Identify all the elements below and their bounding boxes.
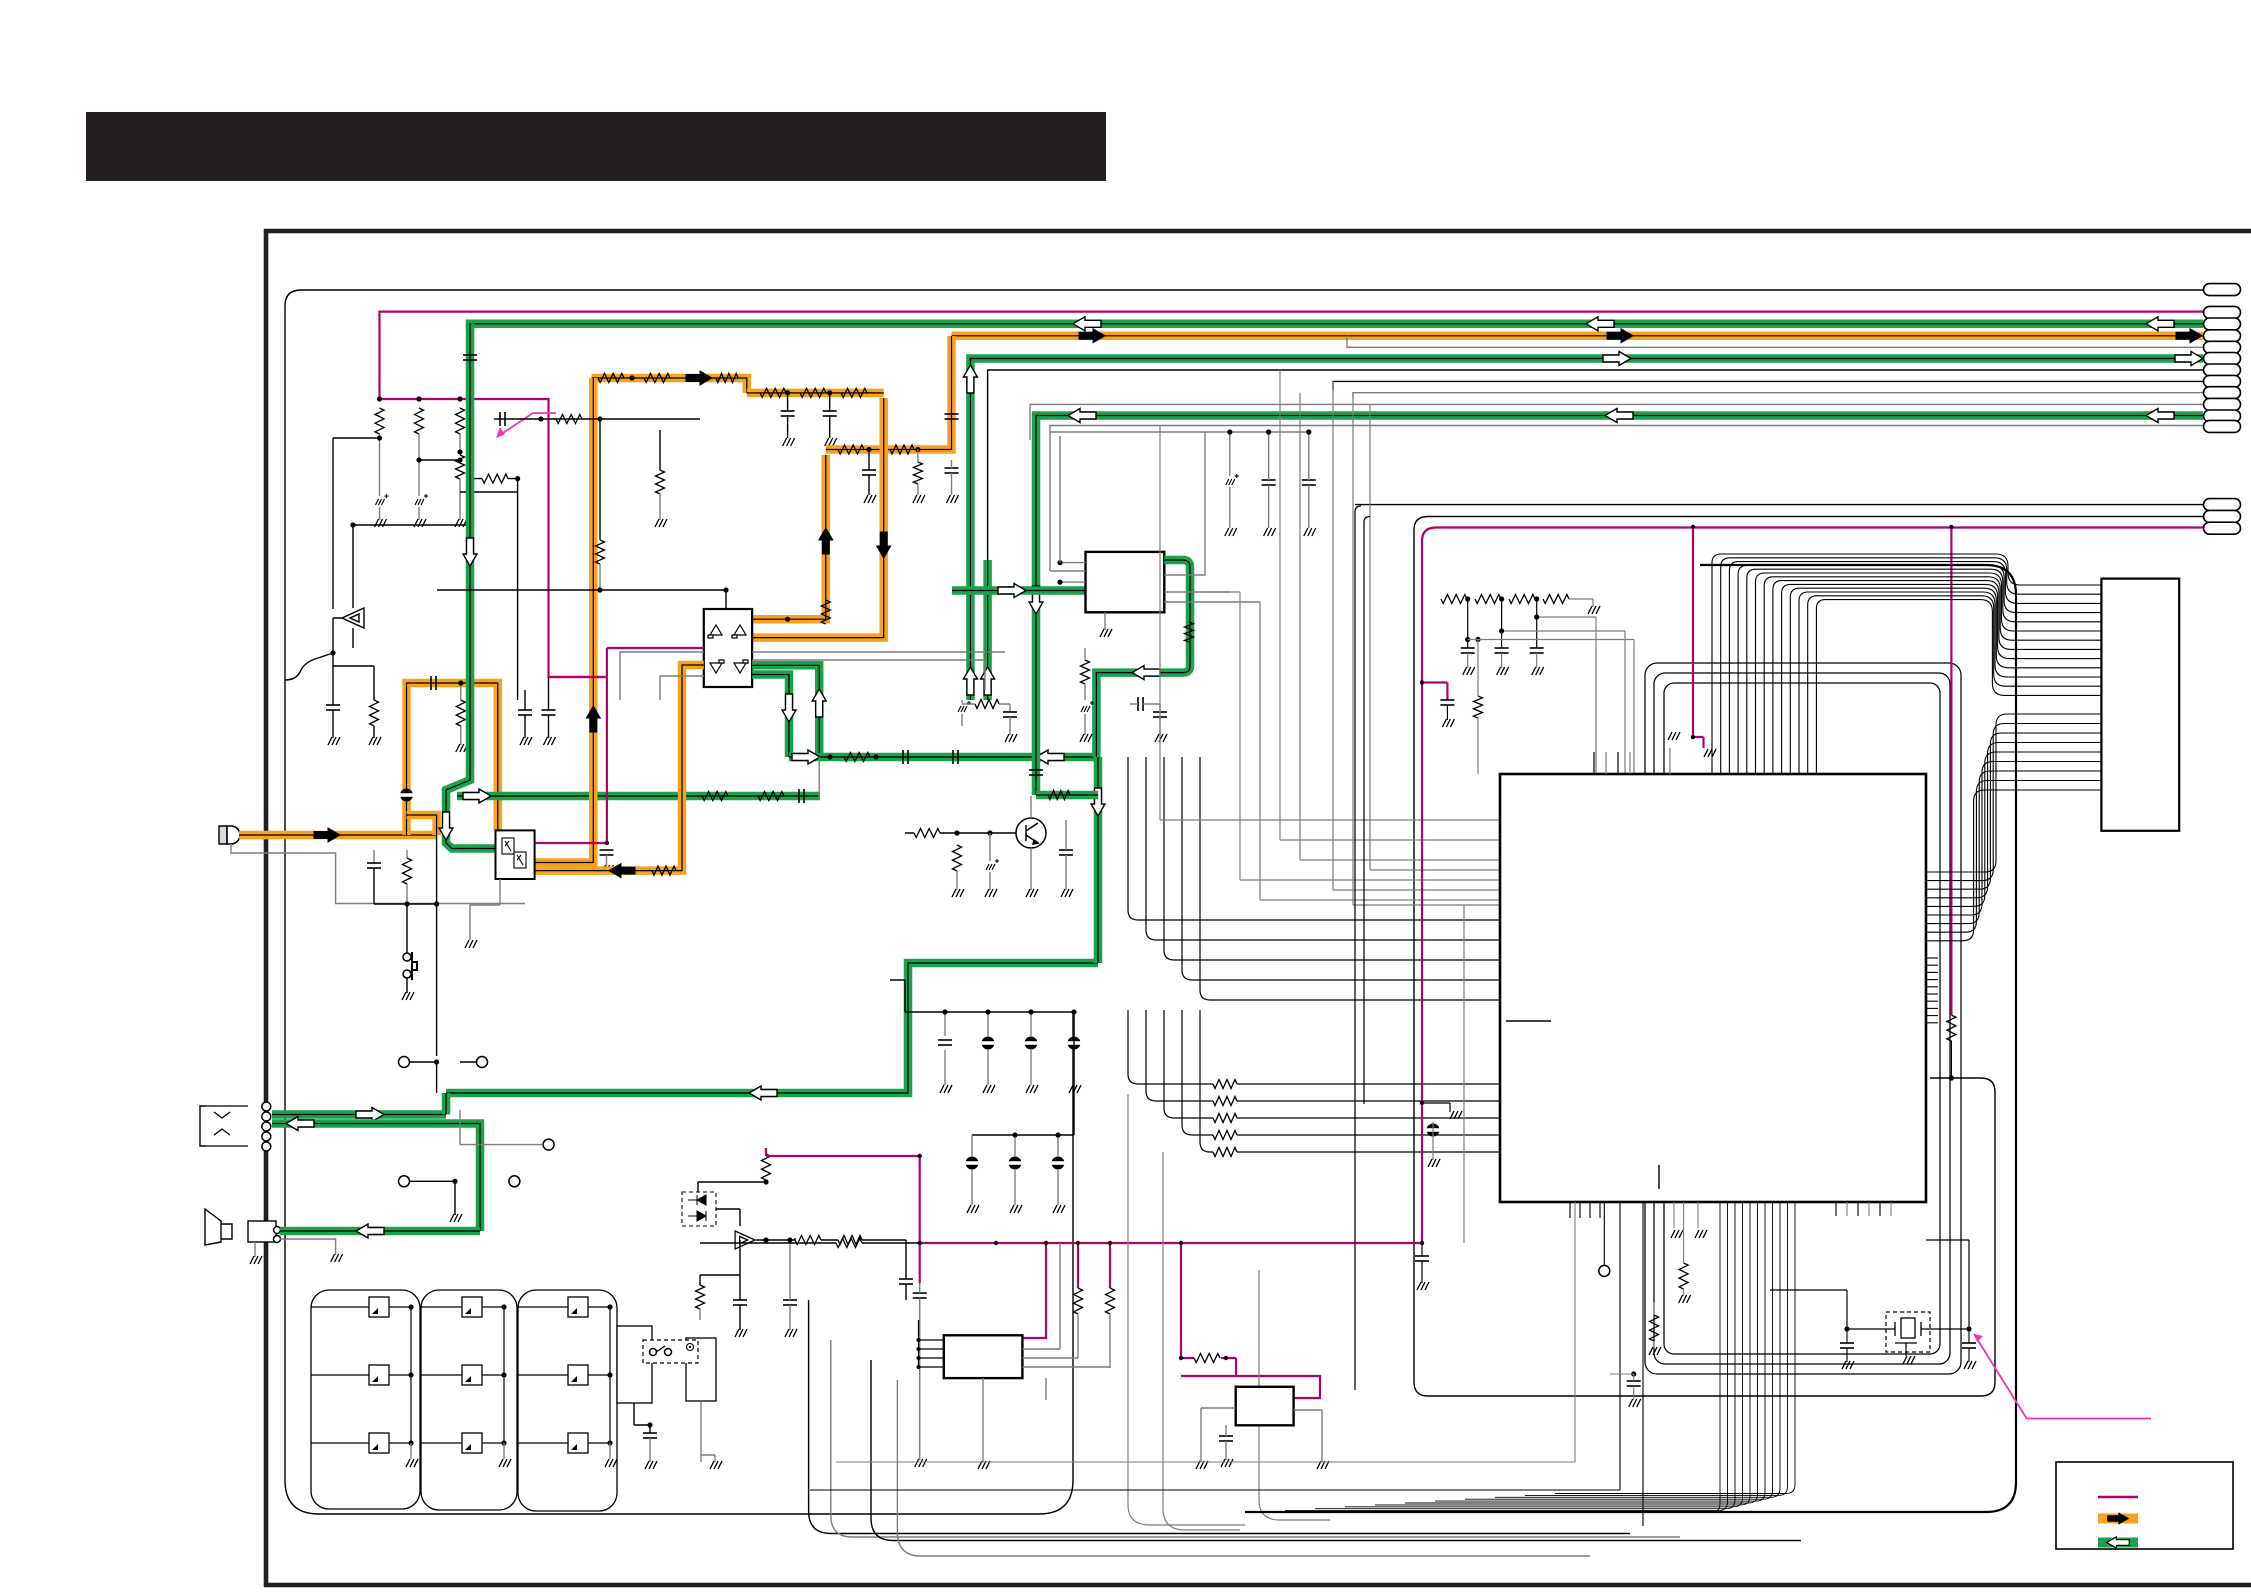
arrow green down 1: [463, 538, 477, 566]
wire loopB drop2: [1364, 517, 1370, 1105]
diode pair dashed: [682, 1192, 716, 1226]
capacitor C IF 2: [1302, 480, 1316, 485]
ground tx row2a: [781, 438, 796, 446]
wire xtal feed: [1770, 1240, 1969, 1329]
wire loop E: [1664, 683, 1940, 1354]
wire center link: [494, 418, 700, 420]
wire crystal: [1847, 1328, 1969, 1330]
ground af5: [1153, 734, 1168, 742]
wire orange vertical mid: [535, 378, 593, 863]
capacitor C low2: [783, 1300, 797, 1305]
wire orange out1: [752, 455, 826, 619]
connector pin 4: [2204, 330, 2241, 342]
wire ic left bus 2: [1146, 757, 1500, 940]
ground magenta end: [1415, 1282, 1430, 1290]
connector pin 10: [2204, 398, 2241, 410]
wire bus thin 2: [988, 370, 2203, 560]
wire mic amp gnd: [470, 879, 500, 940]
resistor R center2: [596, 540, 605, 564]
capacitor bank B1: [966, 1157, 979, 1170]
wire magenta mid to pin15: [1422, 528, 2203, 600]
wire cpu bottom verticals: [1255, 1202, 1720, 1513]
ground cpu r1: [1677, 1295, 1692, 1303]
resistor R mic bias: [456, 700, 465, 726]
jack contact 4: [262, 1132, 271, 1141]
arrow orange TX right 1: [1079, 329, 1105, 343]
ground mic amp: [463, 940, 478, 948]
capacitor bank A4: [1068, 1037, 1081, 1050]
wire low cluster: [700, 1240, 740, 1285]
resistor R tx6: [841, 388, 867, 397]
wire bottom wrap: [285, 1012, 1073, 1514]
connector pin 11: [2204, 410, 2241, 422]
arrow green branch right: [463, 789, 491, 803]
ground af 2: [367, 737, 382, 745]
wire magenta ic2 net: [1181, 1243, 1320, 1398]
wire crossbar: [437, 590, 726, 640]
resistor R cpu2: [1650, 1315, 1659, 1341]
wire cpu right stubs: [1926, 957, 1938, 959]
wire speaker gnd: [280, 1239, 336, 1255]
arrow orange row1: [686, 371, 712, 385]
resistor R af2: [975, 700, 999, 709]
key switch 3-1: [568, 1297, 588, 1317]
resistor R af row: [844, 753, 870, 762]
wire green branch east: [457, 792, 820, 801]
capacitor C tx row3a: [862, 470, 876, 475]
wire q1 collector: [1030, 796, 1032, 818]
resistor R supply 4: [456, 455, 465, 479]
resistor R low: [696, 1285, 705, 1309]
wire IF right pins gray: [1164, 432, 1260, 602]
capacitor C det mag: [600, 850, 614, 855]
keypad group 2 outline: [421, 1290, 517, 1510]
wire magenta det: [535, 648, 704, 843]
wire magenta AF level: [766, 1155, 920, 1157]
capacitor tantalum af3: [1081, 701, 1094, 712]
arrow green RX left 2: [1073, 317, 1101, 331]
capacitor tantalum 1: [376, 494, 389, 505]
wire long vertical fan2: [1259, 1270, 1330, 1520]
capacitor tantalum IF: [1226, 474, 1239, 485]
ground ic1: [976, 1461, 991, 1469]
connector pin 14: [2204, 511, 2241, 523]
capacitor C green end: [799, 789, 804, 803]
arrow green wrap left: [1132, 666, 1160, 680]
arrow green earphone right: [356, 1108, 384, 1122]
ground mag1: [913, 1459, 928, 1467]
wire orange ladder row3: [826, 336, 952, 450]
wire bus thin 6: [1050, 426, 2203, 441]
capacitor tantalum af: [958, 701, 971, 712]
legend magenta sample: [2098, 1496, 2138, 1499]
capacitor C buffer: [899, 1279, 913, 1284]
wire ic left bus 5: [1200, 757, 1500, 1000]
ground IF 4: [1098, 629, 1113, 637]
wire bottom line c: [831, 1340, 1680, 1537]
wire green det out A: [752, 665, 819, 757]
connector pin 8: [2204, 375, 2241, 387]
resistor R bank: [836, 1239, 862, 1248]
ground q1 2: [983, 889, 998, 897]
ground tx row2b: [823, 438, 838, 446]
capacitor bank B3: [1052, 1157, 1065, 1170]
ground keypad 3: [603, 1459, 618, 1467]
capacitor C q1: [1059, 850, 1073, 855]
wire magenta drop 3: [1950, 527, 1952, 1015]
resistor R tx9: [913, 462, 922, 484]
arrow green3 left 1: [1605, 409, 1633, 423]
ground magenta jog: [1440, 719, 1455, 727]
wire IF bottom gnd: [1104, 612, 1106, 630]
resistor R disc: [652, 866, 676, 875]
capacitor C switch: [643, 1433, 657, 1438]
arrow green det down: [782, 694, 796, 722]
wire magenta drop 1: [1421, 599, 1423, 1243]
wire cpu top bundle: [1712, 554, 2101, 774]
arrow green det up: [812, 689, 826, 717]
wire long vertical fan1: [1163, 1152, 1240, 1530]
arrow green RX left 3: [1586, 317, 1614, 331]
wire ic2 right gnd: [1294, 1410, 1322, 1462]
wire ic left bus 3: [1164, 757, 1500, 960]
wire cpu bottom long1: [810, 1202, 1620, 1490]
connector pin 13: [2204, 499, 2241, 511]
resistor R tx4: [760, 388, 786, 397]
resistor R buffer: [795, 1236, 821, 1245]
wire green det out B: [752, 675, 789, 758]
amp buffer small: [735, 1231, 755, 1249]
wire green AF row: [789, 753, 1096, 762]
ground chain c: [1530, 667, 1545, 675]
IC quad detector: [704, 609, 752, 687]
wire green jack link: [442, 1093, 451, 1115]
wire orange disc in: [535, 665, 704, 871]
wire magenta r2: [1109, 1243, 1111, 1288]
arrow green AF left: [1036, 750, 1064, 764]
ground speaker 2: [248, 1256, 263, 1264]
arrow green speaker left: [356, 1224, 384, 1238]
connector pin 15: [2204, 522, 2241, 534]
ground af 1: [326, 737, 341, 745]
ground low1: [733, 1329, 748, 1337]
ground tx row3b: [911, 495, 926, 503]
resistor R center3: [656, 470, 665, 494]
resistor R tx2: [644, 374, 670, 383]
connector pin 3: [2204, 318, 2241, 330]
orange electrolytic branch: [407, 683, 498, 835]
resistor R tx7: [838, 445, 864, 454]
arrow orange disc left: [609, 864, 635, 878]
speaker SP1: [205, 1209, 221, 1245]
wire ic1 gnd: [982, 1378, 984, 1462]
ground cpu top: [1669, 748, 1671, 774]
capacitor C af4: [1138, 697, 1143, 711]
resistor R fan 5: [1213, 1148, 1237, 1157]
wire cap bank bus 2: [972, 1012, 1074, 1135]
arrow green earphone left: [286, 1117, 314, 1131]
capacitor bank A3: [1025, 1037, 1038, 1050]
capacitor bank B2: [1009, 1157, 1022, 1170]
ground low2: [783, 1329, 798, 1337]
resistor R magenta3: [1947, 1015, 1956, 1041]
outer schematic border: [264, 231, 2251, 1587]
wire tap: [460, 491, 518, 493]
wire gray det outs: [620, 652, 704, 700]
capacitor C af row2: [953, 750, 958, 764]
ground cpu r2: [1647, 1347, 1662, 1355]
resistor R row795: [1048, 791, 1070, 800]
ground q1 4: [1059, 889, 1074, 897]
wire bank feed: [890, 980, 905, 1012]
connector pin 7: [2204, 364, 2241, 376]
ground chain: [1586, 606, 1601, 614]
ground chain c: [1495, 667, 1510, 675]
resistor R green1: [702, 792, 728, 801]
ground IF 2: [1262, 528, 1277, 536]
ground af2: [1003, 734, 1018, 742]
wire center drops: [600, 419, 660, 540]
ground IF 1: [1223, 528, 1238, 536]
wire magenta row: [380, 399, 607, 677]
capacitor C ic2: [1219, 1436, 1233, 1441]
wire gray vert x1464: [1463, 905, 1465, 1243]
wire magenta node gnd: [1422, 1103, 1450, 1112]
capacitor C tx row3c: [945, 468, 959, 473]
wire switch mid: [634, 1403, 650, 1433]
ground switch 2: [708, 1461, 723, 1469]
arrow orange down mid: [877, 532, 891, 558]
resistor R af: [370, 700, 379, 726]
wire cpu bottom pins: [1569, 1202, 1571, 1218]
legend orange sample: [2098, 1514, 2138, 1524]
capacitor C xtal2: [1962, 1343, 1976, 1348]
ground switch 1: [643, 1461, 658, 1469]
wire magenta jog: [1422, 683, 1447, 701]
phone jack J2: [200, 1106, 206, 1146]
key switch 3-2: [568, 1365, 588, 1385]
terminal cpu: [1599, 1265, 1610, 1276]
wire green speaker: [280, 1227, 480, 1236]
ground magenta mid: [1448, 1111, 1463, 1119]
wire af filter row: [818, 757, 820, 800]
capacitor C orange top: [431, 676, 436, 690]
mic connector MJ1: [219, 826, 227, 844]
wire green earphone out: [272, 1110, 446, 1119]
wire cpu top small pins: [1593, 752, 1595, 774]
terminal 3: [543, 1139, 554, 1150]
legend box: [2056, 1462, 2233, 1549]
wire green IF wrap: [1096, 560, 1190, 757]
wire bottom line b: [809, 1300, 1630, 1534]
capacitor C xtal1: [1840, 1343, 1854, 1348]
wire ic1 right pins: [1022, 1243, 1060, 1349]
IC IF amp U2: [1086, 552, 1165, 612]
switch PTT: [403, 953, 411, 961]
wire det right gray: [752, 652, 1005, 690]
resistor R buffer2: [838, 1236, 862, 1245]
resistor R mag1: [1074, 1288, 1083, 1314]
wire IF left pins: [1060, 563, 1086, 583]
wire green RX vertical: [446, 324, 496, 849]
ground ic2 c: [1315, 1461, 1330, 1469]
wire node to green: [419, 459, 460, 461]
terminal pair 2: [399, 1176, 410, 1187]
arrow green2 right 1: [1603, 352, 1631, 366]
wire inner loop top: [285, 290, 2203, 1480]
terminal pair 1: [399, 1057, 410, 1068]
resistor R supply 3: [456, 408, 465, 434]
electrolytic C magenta: [1427, 1124, 1440, 1137]
wire bus magenta B+: [380, 312, 2204, 400]
wire mic orange: [239, 831, 437, 840]
wire orange ladder row2: [747, 389, 884, 398]
wire bottom line d: [871, 1360, 1801, 1541]
ground xtal2: [1962, 1361, 1977, 1369]
wire bus thin 5: [1030, 404, 2203, 440]
key switch 1-2: [369, 1365, 389, 1385]
arrow green det down2: [1091, 788, 1105, 816]
connector pin 9: [2204, 387, 2241, 399]
wire bus thin 3: [1333, 381, 2203, 390]
electrolytic C mic: [400, 789, 413, 802]
key switch 2-1: [462, 1297, 482, 1317]
key switch 1-3: [369, 1433, 389, 1453]
title bar (redacted text): [86, 112, 1106, 181]
ground terminal: [448, 1214, 463, 1222]
key switch 2-2: [462, 1365, 482, 1385]
capacitor bank A1: [938, 1040, 952, 1045]
IC mic amp: [496, 830, 535, 879]
ground det mag: [600, 865, 615, 873]
key switch 3-3: [568, 1433, 588, 1453]
wire long vertical fan0: [1128, 1094, 1245, 1525]
ground tx row3c: [945, 495, 960, 503]
switch rotary dashed: [643, 1340, 698, 1363]
resistor R chain v: [1474, 696, 1483, 718]
resistor R q1 1: [953, 845, 962, 871]
wire cap bank bus: [905, 1011, 1074, 1013]
wire diode link: [698, 1182, 766, 1226]
ground q1 1: [950, 889, 965, 897]
resistor R tx1: [598, 374, 624, 383]
capacitor C chain: [1530, 648, 1544, 653]
ground supply 2: [412, 519, 427, 527]
jack contact 3: [262, 1122, 271, 1131]
ground supply 1: [373, 519, 388, 527]
resistor R ptt: [403, 858, 412, 884]
pink annotation leader: [497, 413, 556, 437]
resistor R center: [556, 415, 582, 424]
ground xtal3: [1901, 1356, 1916, 1364]
wire magenta drop ic1: [1022, 1243, 1046, 1338]
wire magenta drop 2: [1693, 527, 1704, 748]
resistor R tx3: [716, 374, 738, 383]
arrow green AF right: [792, 750, 820, 764]
legend green sample: [2098, 1538, 2138, 1548]
arrow orange TX right 3: [2176, 329, 2202, 343]
connector pin 5: [2204, 341, 2241, 353]
wire magenta bottom bus: [920, 1242, 1422, 1244]
wire cpu right bundle: [1926, 714, 2101, 872]
wire loopA drop: [1355, 506, 1361, 1390]
resistor R mag2: [1106, 1288, 1115, 1314]
transistor Q1: [1016, 818, 1046, 848]
capacitor C det pair 1: [518, 710, 532, 715]
resistor R green2: [758, 792, 784, 801]
wire orange out2: [752, 398, 884, 638]
wire green det down: [1094, 757, 1103, 963]
wire ic left bus 1: [1128, 757, 1500, 920]
resistor R cpu1: [1679, 1263, 1688, 1289]
op-amp AF buffer: [342, 608, 364, 628]
connector pin 12: [2204, 420, 2241, 432]
capacitor C green inline: [463, 355, 477, 360]
wire gray mid links: [1205, 592, 1500, 880]
wire magenta main vertical: [919, 1156, 921, 1283]
IC CPU U10: [1500, 774, 1926, 1202]
wire ic1 left pins: [919, 1339, 944, 1341]
capacitor tantalum 2: [415, 494, 428, 505]
arrow green2 up b: [963, 667, 977, 695]
ground supply 3: [453, 519, 468, 527]
capacitor C magenta jog: [1440, 700, 1454, 705]
wire gray ic left extra: [1280, 370, 1500, 840]
capacitor C tx row2a: [781, 411, 795, 416]
ground keypad 1: [404, 1459, 419, 1467]
wire ic left bus 4: [1182, 757, 1500, 980]
arrow green RX left 4: [2146, 317, 2174, 331]
wire mic gnd branch: [231, 844, 525, 904]
jack contact 5: [262, 1142, 271, 1151]
wire bus orange TX: [952, 332, 2204, 341]
wire bank resistor row: [700, 1242, 836, 1244]
wire bottom line e: [897, 1380, 1590, 1556]
resistor R fan 1: [1213, 1080, 1237, 1089]
ground magenta mid2: [1426, 1159, 1441, 1167]
connector pin 6: [2204, 353, 2241, 365]
capacitor C center: [500, 412, 505, 426]
wire magenta r1: [1077, 1243, 1079, 1288]
arrow orange up mid: [819, 528, 833, 554]
resistor R det out: [821, 600, 830, 624]
capacitor tantalum q1: [986, 859, 999, 870]
resistor chain B+ row: [1441, 595, 1467, 604]
ground det 1: [518, 737, 533, 745]
capacitor C af2: [1003, 712, 1017, 717]
ground ic2 b: [1219, 1459, 1234, 1467]
capacitor bank A2: [982, 1037, 995, 1050]
switch block right: [686, 1338, 716, 1401]
resistor R fb horizontal: [482, 474, 508, 483]
arrow green IF right: [998, 584, 1026, 598]
switch block left: [617, 1326, 652, 1403]
capacitor C tx vert inline: [945, 414, 959, 419]
wire bus green 2: [970, 359, 2203, 701]
keypad group 1 outline: [311, 1290, 420, 1509]
arrow green2 right 2: [2175, 352, 2203, 366]
arrow green2b up: [981, 667, 995, 695]
wire green earphone return: [272, 1124, 480, 1232]
arrow mic orange right: [314, 828, 340, 842]
arrow orange up 1: [586, 706, 600, 732]
ground IF 3: [1302, 528, 1317, 536]
ground PTT: [400, 992, 415, 1000]
wire chain drops: [1468, 599, 1537, 648]
wire loopA top to pin13: [1355, 504, 2203, 506]
wire cpu gnd stubs: [1673, 1202, 1675, 1228]
ground q1 3: [1024, 889, 1039, 897]
